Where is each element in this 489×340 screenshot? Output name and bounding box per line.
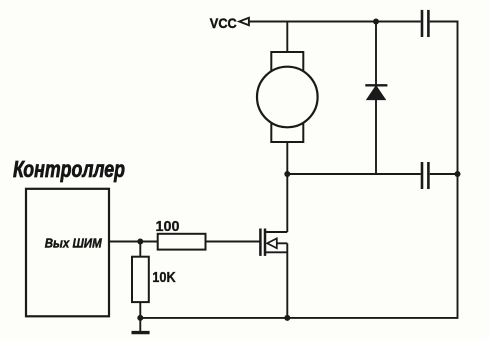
svg-text:Вых ШИМ: Вых ШИМ [45, 236, 103, 251]
svg-text:Контроллер: Контроллер [13, 156, 125, 182]
svg-text:VCC: VCC [210, 16, 237, 31]
svg-text:10K: 10K [152, 269, 176, 286]
svg-text:100: 100 [156, 218, 180, 235]
